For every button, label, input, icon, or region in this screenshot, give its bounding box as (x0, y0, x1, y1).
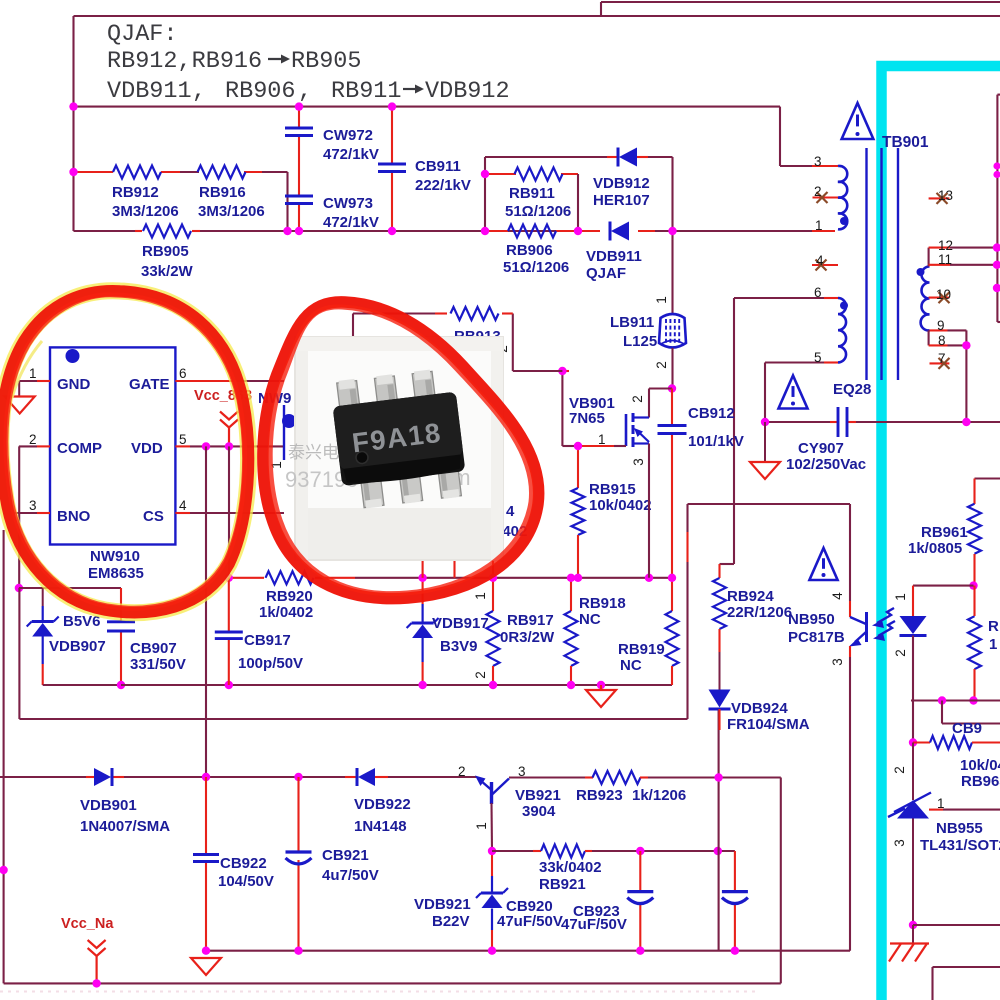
junction RB962 bottom (969, 696, 977, 704)
right edge rail dots (993, 162, 1000, 292)
svg-text:CW972: CW972 (323, 127, 373, 144)
diode NB955 TL431 (888, 793, 1000, 926)
wire x287 drop (286, 172, 288, 231)
wire NB950 emitter drop (849, 665, 851, 951)
svg-text:GND: GND (57, 376, 91, 393)
hidden pin stub x493 (492, 560, 494, 578)
wire row585 (913, 585, 974, 587)
svg-text:3: 3 (892, 839, 907, 847)
svg-text:RB911: RB911 (331, 78, 402, 105)
wire x485 sub-box left (484, 157, 486, 231)
wire row777 to corner (719, 776, 781, 778)
label TB901 (882, 134, 929, 151)
svg-text:VB921: VB921 (515, 787, 561, 804)
wire x672 row231 to LB911 (654, 231, 673, 315)
wire row y719 (19, 718, 687, 720)
svg-text:VDB911: VDB911 (107, 78, 192, 105)
junction VB921 base node (488, 847, 496, 855)
svg-text:PC817B: PC817B (788, 629, 845, 646)
warning triangle top (842, 103, 874, 139)
svg-text:BNO: BNO (57, 508, 91, 525)
svg-text:CB912: CB912 (688, 405, 735, 422)
svg-text:3M3/1206: 3M3/1206 (112, 203, 179, 220)
TB901 pin10 crossed (929, 287, 951, 303)
junction NB955 gnd (909, 921, 917, 929)
junction row777 CB921 (294, 773, 302, 781)
TB901 pin6 label (814, 285, 822, 300)
svg-text:VDB907: VDB907 (49, 638, 106, 655)
svg-text:VDB921: VDB921 (414, 896, 471, 913)
junction row106 CW972 (295, 102, 303, 110)
junction VDB917 top (418, 574, 426, 582)
svg-text:TB901: TB901 (882, 134, 929, 151)
resistor RB917 0R3/2W (473, 578, 555, 685)
junction LB911/CB912 (668, 384, 676, 392)
transistor VB901 MOSFET (569, 395, 649, 466)
wire LB911 bottom (654, 348, 673, 389)
svg-text:,: , (298, 78, 312, 105)
TB901 pin7 crossed (930, 351, 950, 369)
capacitor CW972 (285, 107, 379, 164)
junction CB912 bottom (668, 574, 676, 582)
wire x718 vertical (718, 710, 720, 951)
wire row y106 (74, 106, 781, 108)
wire row y231 main (74, 230, 836, 232)
NW910 pin2 wire (19, 432, 50, 447)
TB901 pin3 wire (780, 165, 838, 167)
junction RB918 bottom (567, 681, 575, 689)
svg-text:CB9: CB9 (952, 720, 982, 737)
red circle around photo (263, 302, 539, 599)
note box top line (74, 15, 1000, 17)
resistor RB923 1k/1206 (530, 771, 719, 804)
resistor RB920 (259, 571, 314, 621)
svg-text:EM8635: EM8635 (88, 565, 144, 582)
svg-text:CB917: CB917 (244, 632, 291, 649)
svg-text:VDB924: VDB924 (731, 700, 788, 717)
svg-text:CB911: CB911 (415, 158, 461, 175)
capacitor CB911 (378, 107, 471, 231)
svg-text:2: 2 (814, 184, 822, 199)
TB901 pin8 wire (929, 330, 967, 348)
capacitor CB921 (286, 777, 379, 951)
junction row950 VDB921 (488, 947, 496, 955)
svg-text:VDD: VDD (131, 440, 163, 457)
svg-text:HER107: HER107 (593, 192, 650, 209)
svg-text:1: 1 (29, 366, 37, 381)
svg-text:472/1kV: 472/1kV (323, 214, 379, 231)
label EQ28 (833, 381, 871, 398)
capacitor CY907 (765, 407, 1000, 473)
junction gate/RB915 (574, 442, 582, 450)
svg-text:0R3/2W: 0R3/2W (500, 629, 555, 646)
svg-text:222/1kV: 222/1kV (415, 177, 471, 194)
wire CS stub (453, 559, 455, 578)
diode VDB912 HER107 (593, 148, 650, 210)
optocoupler NB950 PC817B (788, 504, 867, 666)
svg-text:47uF/50V: 47uF/50V (497, 913, 563, 930)
TB901 pin6 wire (734, 297, 838, 299)
svg-text:CY907: CY907 (798, 440, 844, 457)
svg-text:7: 7 (938, 351, 946, 366)
svg-text:9: 9 (937, 318, 945, 333)
transistor VB921 3904 (458, 764, 561, 830)
junction row851 x718 (714, 847, 722, 855)
svg-text:NB955: NB955 (936, 820, 983, 837)
svg-text:VDB912: VDB912 (593, 175, 650, 192)
right edge rail (997, 95, 1000, 322)
wire gate row (562, 445, 626, 447)
chassis ground NB955 (889, 925, 929, 962)
junction RB915 bottom (574, 574, 582, 582)
svg-text:B3V9: B3V9 (440, 638, 478, 655)
junction row851 CB920 (636, 847, 644, 855)
junction x966 row422 (962, 418, 970, 426)
power Vcc_863 (194, 388, 252, 446)
resistor RB912 (112, 166, 179, 221)
diode VDB911 QJAF (578, 222, 655, 283)
svg-text:VDB917: VDB917 (432, 615, 489, 632)
capacitor CB907 (107, 588, 186, 685)
svg-text:1k/0402: 1k/0402 (259, 604, 313, 621)
wire row851 (492, 850, 735, 852)
wire row371 (513, 370, 563, 372)
wire row577 (229, 577, 672, 579)
note box left rail (72, 16, 74, 231)
NW910 pin2 riser (18, 446, 20, 588)
junction row231 RB916 (283, 227, 291, 235)
wire x206 long vertical (205, 446, 207, 777)
junction CB917 top (225, 574, 233, 582)
wire left rail bottom (0, 530, 8, 983)
resistor RB924 22R (713, 578, 792, 652)
wire row777 (0, 776, 477, 778)
resistor RB906 (485, 225, 578, 277)
TB901 winding B (838, 298, 846, 362)
zener VDB907 B5V6 (27, 588, 106, 685)
svg-text:3M3/1206: 3M3/1206 (198, 203, 265, 220)
wire drain link (630, 389, 672, 418)
svg-text:RB905: RB905 (142, 243, 189, 260)
svg-text:2: 2 (29, 432, 37, 447)
wire gate riser x562 (562, 371, 569, 446)
svg-text:CB907: CB907 (130, 640, 177, 657)
junction MOSFET source (645, 444, 653, 583)
junction row950 CB921 (294, 947, 302, 955)
junction x718 row777 (714, 773, 722, 781)
svg-text:51Ω/1206: 51Ω/1206 (505, 203, 571, 220)
svg-text:CW973: CW973 (323, 195, 373, 212)
svg-text:B22V: B22V (432, 913, 470, 930)
TB901 secondary phase dot (917, 268, 925, 276)
svg-text:1k/0805: 1k/0805 (908, 540, 962, 557)
wire pin2 riser lower (18, 588, 20, 719)
svg-text:4: 4 (506, 503, 515, 520)
NW910 pin6 wire (175, 366, 284, 381)
svg-text:2: 2 (654, 361, 669, 369)
LED NB950 pin1 (893, 586, 927, 743)
junction gate riser (558, 367, 566, 375)
diode VDB922 1N4148 (345, 768, 411, 835)
resistor RB915 (572, 446, 652, 578)
svg-text:RB911: RB911 (509, 185, 555, 202)
svg-text:RB924: RB924 (727, 588, 774, 605)
TB901 pin13 crossed (929, 188, 953, 204)
svg-text:2: 2 (893, 649, 908, 657)
svg-text:RB963: RB963 (961, 773, 1000, 790)
resistor RB963 10k (913, 736, 1000, 790)
svg-text:VDB911: VDB911 (586, 248, 642, 265)
hidden pin stub x422 (422, 560, 424, 578)
svg-text:4u7/50V: 4u7/50V (322, 867, 379, 884)
svg-text:1: 1 (654, 296, 669, 304)
svg-text:RB905: RB905 (291, 48, 362, 75)
junction RB961 bottom (969, 581, 977, 589)
TB901 winding A (838, 166, 847, 229)
TB901 pin5 wire (765, 350, 838, 365)
wire RB924 corner (720, 564, 735, 578)
power Vcc_Na (61, 916, 114, 988)
wire x780 drop bottom (780, 778, 782, 984)
svg-text:10k/04: 10k/04 (960, 757, 1000, 774)
junction row950 CB922 (202, 947, 210, 955)
wire row588 (19, 587, 121, 589)
junction row231 x578 (574, 227, 582, 235)
capacitor CB917 (215, 578, 303, 685)
svg-text:12: 12 (938, 238, 953, 253)
wire x687 vertical (686, 504, 688, 719)
junction CB907 bottom (117, 681, 125, 689)
TB901 pin4 crossed (812, 253, 838, 271)
svg-text:Vcc_Na: Vcc_Na (61, 916, 114, 932)
svg-text:RB915: RB915 (589, 481, 636, 498)
svg-text:4: 4 (830, 592, 845, 600)
TB901 pin1 label (815, 218, 823, 233)
junction row950 CB920 (636, 947, 644, 955)
svg-text:CB922: CB922 (220, 855, 267, 872)
junction row950 CB923 (731, 947, 739, 955)
svg-text:FR104/SMA: FR104/SMA (727, 716, 810, 733)
svg-text:6: 6 (179, 366, 187, 381)
svg-text:2: 2 (630, 395, 645, 403)
svg-text:1: 1 (598, 432, 606, 447)
junction CB917 bottom (225, 681, 233, 689)
TB901 pin9 wire (930, 318, 967, 333)
inductor LB911 L125 (610, 314, 686, 350)
junction left rail row106 (69, 102, 77, 110)
svg-text:RB912: RB912 (112, 184, 159, 201)
svg-text:NC: NC (579, 611, 601, 628)
svg-text:6: 6 (814, 285, 822, 300)
svg-text:LB911: LB911 (610, 314, 654, 331)
junction row231 x485 (481, 227, 489, 235)
wire CB9 branch (942, 701, 1000, 738)
warning triangle EQ28 (778, 376, 807, 409)
TB901 winding A phase dot (840, 217, 848, 225)
junction row106 CB911 (388, 102, 396, 110)
NW910 pin1 wire (19, 366, 50, 397)
svg-text:33k/2W: 33k/2W (141, 263, 194, 280)
junction VDD x229 (225, 442, 233, 450)
svg-text:3: 3 (518, 764, 526, 779)
note text QJAF (107, 21, 178, 48)
red circle around NW910 (1, 291, 249, 613)
zener VDB921 B22V (414, 851, 508, 951)
svg-text:1N4007/SMA: 1N4007/SMA (80, 818, 170, 835)
svg-text:EQ28: EQ28 (833, 381, 871, 398)
svg-text:1: 1 (893, 593, 908, 601)
svg-text:1N4148: 1N4148 (354, 818, 407, 835)
capacitor CB912 (658, 389, 744, 578)
svg-text:RB906: RB906 (506, 242, 553, 259)
svg-text:2: 2 (892, 766, 907, 774)
svg-text:1: 1 (937, 796, 945, 811)
svg-text:10k/0402: 10k/0402 (589, 497, 652, 514)
resistor RB921 33k (533, 845, 602, 894)
wire row700 (911, 699, 1000, 701)
svg-text:1: 1 (474, 822, 489, 830)
yellow marker streak (12, 341, 42, 398)
svg-text:CB921: CB921 (322, 847, 369, 864)
junction NB955 top (909, 738, 917, 746)
bottom right box corner (933, 967, 1000, 1000)
svg-text:VDB922: VDB922 (354, 796, 411, 813)
svg-text:101/1kV: 101/1kV (688, 433, 744, 450)
TB901 pin3 label (814, 154, 822, 169)
TB901 secondary winding (921, 267, 930, 331)
TB901 winding B phase dot (840, 302, 848, 310)
svg-text:RB923: RB923 (576, 787, 623, 804)
wire x229 to CB917 (228, 446, 230, 577)
wire VB921 base (490, 803, 493, 851)
wire row925 (913, 924, 1000, 926)
svg-text:QJAF:: QJAF: (107, 21, 178, 48)
junction row231 CB911 (388, 227, 396, 235)
junction VDD x206 (202, 442, 210, 450)
svg-text:RB920: RB920 (266, 588, 313, 605)
svg-text:L125: L125 (623, 333, 657, 350)
svg-text:102/250Vac: 102/250Vac (786, 456, 866, 473)
junction RB917 bottom (489, 681, 497, 689)
wire row983 (4, 982, 781, 984)
svg-text:VDB901: VDB901 (80, 797, 137, 814)
svg-text:100p/50V: 100p/50V (238, 655, 303, 672)
svg-text:RB961: RB961 (921, 524, 968, 541)
svg-text:RB919: RB919 (618, 641, 665, 658)
resistor RB961 1k/0805 (908, 479, 1000, 586)
svg-text:NW910: NW910 (90, 548, 140, 565)
resistor RB962 partial (968, 586, 999, 701)
svg-text:QJAF: QJAF (586, 265, 626, 282)
svg-text:NC: NC (620, 657, 642, 674)
hidden IC fragment (258, 390, 296, 469)
svg-text:4: 4 (816, 253, 824, 268)
junction row231 x672 (668, 227, 676, 235)
svg-text:1: 1 (473, 592, 488, 600)
svg-text:2: 2 (473, 671, 488, 679)
earth ground row950 (191, 958, 221, 975)
wire row685 (121, 684, 672, 686)
svg-text:泰兴电: 泰兴电 (288, 443, 339, 462)
ground NW910 pin1 (5, 397, 35, 414)
faint dotted bottom line (0, 991, 760, 993)
svg-text:RB916: RB916 (199, 184, 246, 201)
NW910 pin4 wire (175, 498, 284, 513)
svg-text:13: 13 (938, 188, 953, 203)
svg-text:1k/1206: 1k/1206 (632, 787, 686, 804)
junction row700 CB9 (938, 696, 946, 704)
svg-text:8: 8 (938, 333, 946, 348)
wire x734 vertical (733, 298, 735, 564)
wire row y172 RB912/RB916 (74, 171, 288, 173)
junction CY907 (761, 418, 769, 426)
svg-text:4: 4 (179, 498, 187, 513)
ground row685 (586, 681, 616, 707)
capacitor CW973 (285, 164, 379, 231)
junction VDB917 bottom (418, 681, 426, 689)
wire row y157 VDB912 (485, 156, 673, 158)
resistor RB918 NC (565, 578, 626, 685)
svg-text:RB918: RB918 (579, 595, 626, 612)
svg-text:11: 11 (938, 252, 952, 267)
svg-text:NB950: NB950 (788, 611, 835, 628)
junction RB911 left (481, 170, 489, 178)
svg-text:RB921: RB921 (539, 876, 586, 893)
isolation barrier (cyan) (882, 66, 1000, 1000)
svg-text:RB912,RB916: RB912,RB916 (107, 48, 262, 75)
note text line3 (107, 78, 510, 105)
svg-text:7N65: 7N65 (569, 410, 605, 427)
warning triangle NB950 (809, 548, 837, 580)
wire x765 pin5 drop (764, 363, 766, 423)
note box top outer line (601, 2, 1000, 16)
note text line2 (107, 48, 362, 75)
photo of F9A18 chip (285, 337, 503, 560)
svg-text:TL431/SOT23: TL431/SOT23 (920, 837, 1000, 854)
svg-text:3: 3 (29, 498, 37, 513)
op-amp U1 NW910 EM8635 box (50, 347, 175, 582)
wire x780 drop to row166 (779, 107, 781, 166)
wire x672 drop (671, 157, 673, 231)
diode VDB901 1N4007 (80, 768, 170, 835)
svg-text:1: 1 (815, 218, 823, 233)
svg-text:VDB912: VDB912 (425, 78, 510, 105)
resistor RB916 (198, 166, 265, 221)
wire row y174 RB911 (485, 173, 578, 175)
svg-text:5: 5 (179, 432, 187, 447)
svg-text:10: 10 (936, 287, 951, 302)
svg-text:104/50V: 104/50V (218, 873, 274, 890)
svg-text:22R/1206: 22R/1206 (727, 604, 792, 621)
wire pins8/9 junction down (962, 330, 970, 423)
wire NB955 riser (892, 743, 913, 801)
junction pin2 node (15, 584, 23, 592)
NW910 pin3 wire (12, 498, 50, 513)
partial hidden label 0402 (494, 503, 527, 540)
svg-text:3: 3 (814, 154, 822, 169)
resistor RB919 NC (618, 578, 679, 685)
diode VDB924 FR104 (709, 652, 810, 733)
svg-text:3904: 3904 (522, 803, 556, 820)
svg-text:R: R (988, 618, 999, 635)
junction RB918 top (567, 574, 575, 582)
junction row777 CB922 (202, 773, 210, 781)
resistor RB911 (505, 168, 571, 221)
svg-text:331/50V: 331/50V (130, 656, 186, 673)
junction left rail row172 (69, 168, 77, 176)
capacitor CB923 47uF (561, 851, 748, 951)
TB901 pin12 wire (929, 238, 998, 267)
